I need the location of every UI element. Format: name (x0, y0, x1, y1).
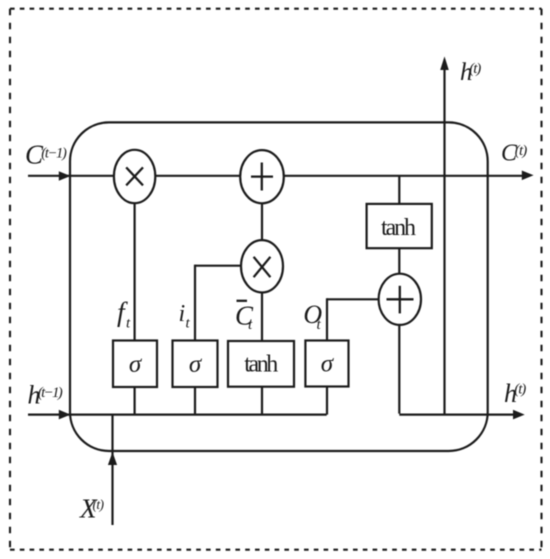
arrowhead h(t) exit (513, 410, 525, 420)
svg-text:(t−1): (t−1) (41, 146, 67, 162)
wire X(t) input vertical (111, 415, 113, 525)
wire output-gate vertical O (326, 298, 328, 414)
wire forget-gate vertical f (134, 176, 136, 415)
svg-text:(t): (t) (514, 382, 526, 398)
outer dashed frame bottom (10, 549, 542, 551)
plus glyph node 1 (251, 175, 273, 177)
svg-text:σ: σ (321, 351, 335, 378)
arrowhead C(t-1) entry (59, 171, 71, 181)
svg-text:i: i (179, 301, 186, 327)
LSTM cell rounded boundary (70, 122, 488, 451)
sigma box input gate (173, 341, 218, 388)
multiply cross glyph node 2 (254, 257, 271, 277)
svg-text:t: t (186, 316, 191, 332)
wire h up branch (443, 64, 445, 415)
wire h(t-1) input internal bus (28, 414, 327, 416)
plus glyph node 2 (387, 298, 414, 300)
outer dashed frame left (9, 9, 11, 550)
arrowhead C(t) exit (522, 171, 534, 181)
svg-text:(t): (t) (93, 497, 105, 512)
wire output-gate horizontal to plus-node (327, 298, 400, 300)
wire tanh branch vertical from C-line through plus-node (398, 176, 400, 414)
sigma box output gate (305, 341, 348, 387)
arrowhead X(t) up (108, 452, 117, 465)
svg-text:(t−1): (t−1) (38, 385, 63, 401)
sigma box forget gate (113, 341, 157, 388)
outer dashed frame top (10, 8, 542, 10)
wire input-gate vertical i (194, 265, 196, 415)
wire input-gate horizontal to x-node (195, 265, 262, 267)
svg-text:σ: σ (189, 351, 203, 378)
tanh box output branch (367, 204, 432, 248)
svg-text:(t): (t) (515, 143, 528, 159)
add node C-line (240, 150, 284, 203)
add node output gate (379, 274, 421, 325)
wire add-node down through x-node to tanh box (261, 176, 263, 415)
overbar of C-bar t (237, 300, 248, 302)
multiply node input gate (241, 240, 283, 292)
arrowhead h(t) up (440, 56, 449, 70)
svg-text:σ: σ (129, 351, 143, 378)
svg-text:tanh: tanh (381, 215, 416, 241)
svg-text:(t): (t) (469, 61, 481, 77)
multiply node forget gate (114, 150, 155, 203)
outer dashed frame right (540, 9, 542, 550)
multiply cross glyph node 1 (126, 167, 143, 185)
arrowhead h(t-1) entry (59, 410, 71, 420)
wire h output horizontal (399, 414, 513, 416)
wire C(t-1) input and C-line to output arrow (28, 175, 522, 177)
svg-text:tanh: tanh (244, 351, 278, 377)
svg-text:t: t (126, 316, 131, 332)
tanh box candidate (228, 341, 294, 387)
